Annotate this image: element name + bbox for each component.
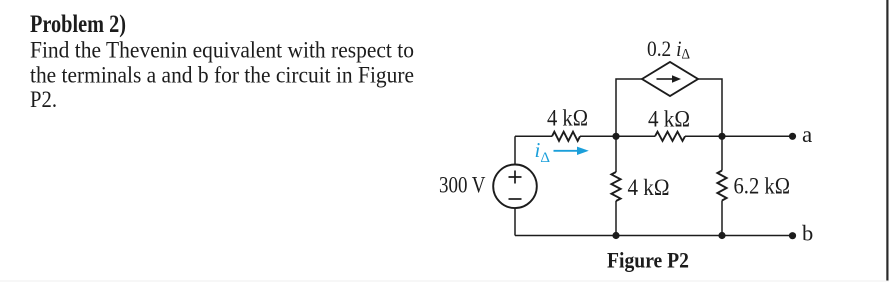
wire top branch right (diamond to right node) [698,79,722,136]
node junction dot right bottom [718,232,725,239]
current annotation i-delta (cyan) [535,138,589,166]
resistor R4 6.2k vertical right [717,136,726,235]
node junction dot middle bottom [612,232,619,239]
svg-text:4 kΩ: 4 kΩ [628,175,670,200]
wire bottom rail [515,235,793,237]
svg-text:a: a [802,122,812,147]
svg-text:P2.: P2. [30,87,57,112]
terminal b [789,232,796,239]
resistor R2 4k horizontal right [655,132,685,141]
problem statement text [30,11,414,112]
svg-text:Figure P2: Figure P2 [607,248,689,272]
wire top branch left (node to diamond) [616,79,642,136]
svg-text:b: b [802,221,813,246]
svg-text:Problem 2): Problem 2) [30,11,126,38]
resistor R1 4k horizontal left [552,132,580,141]
node junction dot right top [718,133,725,140]
wire main rail to middle node [580,135,616,137]
svg-text:4 kΩ: 4 kΩ [648,107,690,132]
svg-text:the terminals a and b for the: the terminals a and b for the circuit in… [30,63,414,88]
svg-text:300 V: 300 V [439,172,486,197]
svg-text:Find the Thevenin equivalent w: Find the Thevenin equivalent with respec… [30,38,414,63]
svg-text:6.2 kΩ: 6.2 kΩ [734,174,791,199]
wire main rail to terminal a [685,135,793,137]
terminal a [789,133,796,140]
voltage source V1 300V [493,165,537,209]
wire main rail left segment [515,135,552,137]
resistor R3 4k vertical middle [611,136,620,235]
dependent current source 0.2 i-delta (diamond) [642,62,698,96]
node junction dot middle top [612,133,619,140]
svg-text:4 kΩ: 4 kΩ [547,106,588,131]
wire main rail middle segment [616,135,655,137]
wire left vertical from source top to main rail [514,136,516,164]
wire source bottom to bottom rail [514,208,516,235]
